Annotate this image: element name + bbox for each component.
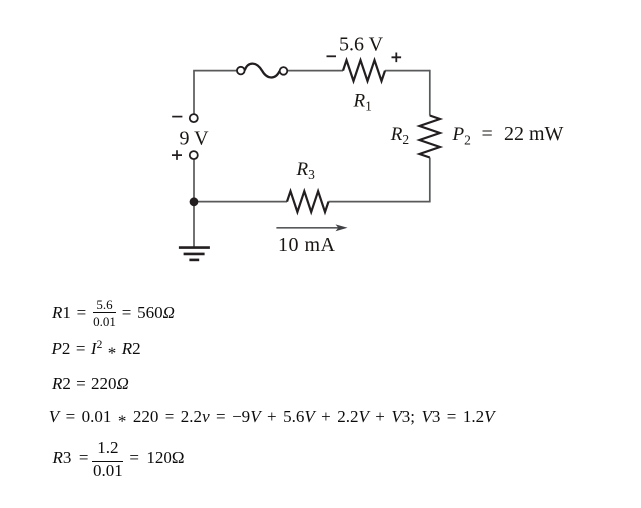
equation line 2: P2 = I^2 * R2 (52, 340, 141, 362)
source terminal: negative (open circle) (190, 114, 198, 122)
ground symbol (179, 248, 210, 260)
label R2 (390, 124, 409, 147)
equation line 1: R1 = 5.6/0.01 = 560 ohm (52, 304, 175, 321)
resistor R1 (zigzag) (343, 60, 385, 81)
label 10 mA (278, 234, 336, 256)
source terminal: positive (open circle) (190, 151, 198, 159)
wire: R1 to top-right corner (385, 70, 430, 72)
svg-text:R3: R3 (296, 159, 316, 182)
svg-text:P2=22 mW: P2=22 mW (452, 123, 564, 148)
resistor R2 (vertical zigzag) (420, 116, 440, 158)
svg-text:9 V: 9 V (180, 128, 210, 150)
wire: bottom right (corner to R3) (329, 201, 431, 203)
label R1 (353, 91, 372, 114)
label R3 (296, 159, 316, 182)
label 9 V (180, 128, 210, 150)
polarity minus (source top) (172, 116, 182, 118)
current arrow (10 mA direction) (276, 224, 347, 231)
equation line 3: R2 = 220 ohm (52, 375, 129, 392)
svg-text:R2: R2 (390, 124, 409, 147)
polarity plus (source bottom) (172, 150, 182, 160)
wire: right vertical upper (corner to R2) (429, 70, 431, 116)
wire: left vertical (top corner to source top terminal) (193, 71, 195, 115)
wire: fuse to R1 (284, 70, 344, 72)
svg-text:10 mA: 10 mA (278, 234, 336, 256)
svg-text:R1: R1 (353, 91, 372, 114)
wire: source bottom terminal to junction (193, 159, 195, 202)
polarity plus (right of R1) (392, 53, 402, 63)
resistor R3 (zigzag) (287, 191, 329, 212)
svg-text:5.6 V: 5.6 V (339, 33, 384, 55)
wire: right vertical lower (R2 to bottom corner) (429, 158, 431, 202)
equation line 5: R3 = 1.2/0.01 = 120 ohm (53, 449, 185, 466)
label P2 = 22 mW (452, 123, 564, 148)
fuse F1 (S-curve element with terminals) (237, 64, 287, 78)
equation line 4: KVL equation (49, 408, 495, 430)
wire: bottom left (R3 to junction) (194, 201, 287, 203)
wire: top-left horizontal (corner to fuse) (193, 70, 241, 72)
label: 5.6 V (voltage across R1) (339, 33, 384, 55)
wire: ground stem (193, 202, 195, 247)
junction node (filled dot) (190, 197, 199, 206)
polarity minus (left of R1) (327, 55, 337, 57)
